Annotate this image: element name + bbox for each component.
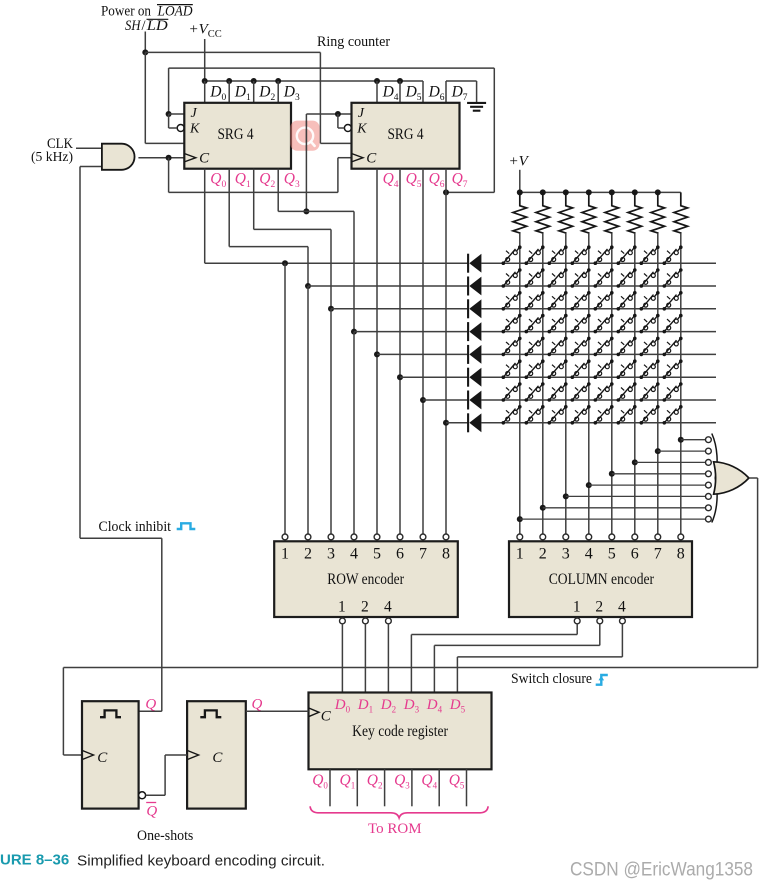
svg-text:Power on: Power on [101, 4, 152, 20]
svg-text:Key code register: Key code register [352, 723, 449, 740]
svg-text:2: 2 [595, 599, 603, 616]
svg-text:LOAD: LOAD [157, 4, 193, 20]
svg-text:Switch closure: Switch closure [511, 671, 592, 687]
svg-text:7: 7 [654, 546, 662, 563]
svg-text:Q: Q [146, 804, 157, 820]
svg-text:1: 1 [573, 599, 581, 616]
svg-text:C: C [212, 750, 223, 766]
svg-text:8: 8 [677, 546, 685, 563]
svg-text:Simplified keyboard encoding c: Simplified keyboard encoding circuit. [77, 853, 325, 870]
svg-text:4: 4 [618, 599, 626, 616]
svg-text:6: 6 [631, 546, 639, 563]
svg-text:3: 3 [562, 546, 570, 563]
svg-text:1: 1 [516, 546, 524, 563]
svg-text:SRG 4: SRG 4 [388, 126, 424, 143]
svg-text:2: 2 [304, 546, 312, 563]
svg-text:(5 kHz): (5 kHz) [31, 150, 73, 165]
svg-text:8: 8 [442, 546, 450, 563]
svg-text:CSDN @EricWang1358: CSDN @EricWang1358 [570, 860, 753, 881]
svg-text:6: 6 [396, 546, 404, 563]
svg-text:C: C [199, 151, 210, 167]
svg-text:SH: SH [125, 18, 142, 34]
svg-text:ROW encoder: ROW encoder [327, 571, 405, 588]
svg-text:COLUMN encoder: COLUMN encoder [549, 571, 655, 588]
svg-text:3: 3 [327, 546, 335, 563]
svg-text:1: 1 [281, 546, 289, 563]
svg-text:7: 7 [419, 546, 427, 563]
svg-text:J: J [191, 106, 198, 121]
svg-text:LD: LD [146, 18, 169, 34]
svg-text:To ROM: To ROM [368, 821, 422, 837]
svg-text:Clock inhibit: Clock inhibit [99, 519, 172, 535]
svg-text:C: C [97, 750, 108, 766]
svg-text:2: 2 [539, 546, 547, 563]
svg-text:URE 8–36: URE 8–36 [0, 852, 69, 869]
svg-text:C: C [366, 151, 377, 167]
svg-text:SRG 4: SRG 4 [218, 126, 254, 143]
svg-text:Q: Q [252, 697, 263, 713]
svg-text:J: J [358, 106, 365, 121]
svg-text:K: K [356, 122, 367, 137]
svg-text:2: 2 [361, 599, 369, 616]
svg-text:4: 4 [350, 546, 358, 563]
svg-text:4: 4 [585, 546, 593, 563]
svg-text:Q: Q [145, 697, 156, 713]
svg-text:Ring counter: Ring counter [317, 34, 390, 50]
svg-text:5: 5 [608, 546, 616, 563]
svg-text:+V: +V [509, 153, 530, 169]
svg-text:1: 1 [338, 599, 346, 616]
svg-text:C: C [321, 708, 332, 724]
svg-text:4: 4 [384, 599, 392, 616]
svg-text:One-shots: One-shots [137, 828, 194, 844]
svg-text:5: 5 [373, 546, 381, 563]
svg-text:K: K [189, 122, 200, 137]
